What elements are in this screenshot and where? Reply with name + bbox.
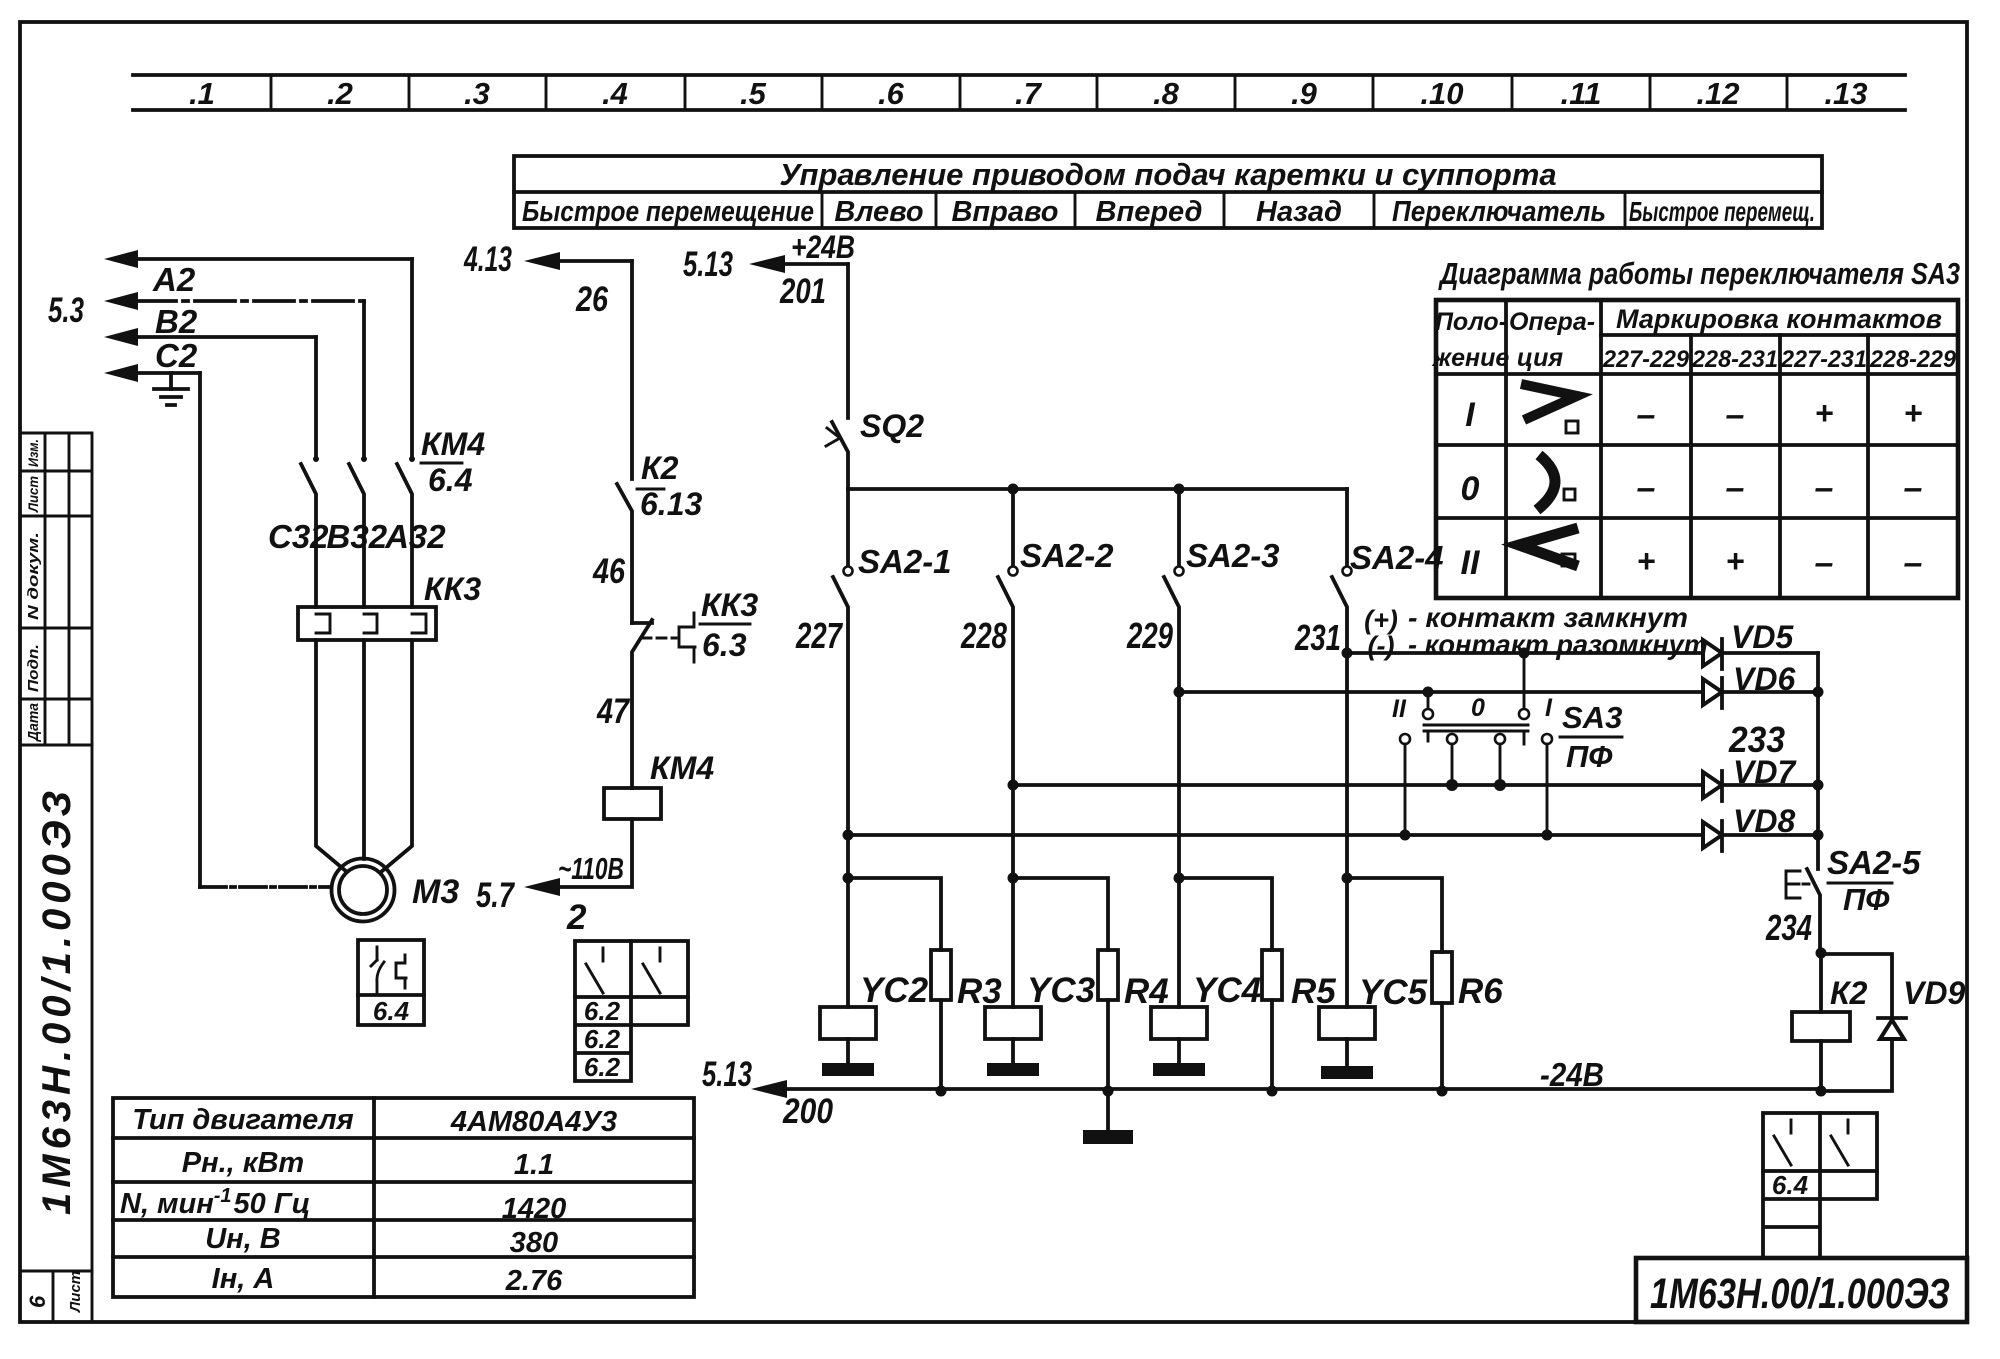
cross-reference table K2 bottom right [1763,1113,1877,1258]
svg-text:Управление приводом подач каре: Управление приводом подач каретки и супп… [779,157,1556,192]
svg-text:К2: К2 [641,450,679,486]
relay coil K2 [1792,948,1868,1092]
svg-text:R6: R6 [1458,972,1503,1011]
svg-text:КМ4: КМ4 [650,750,714,786]
svg-text:А2: А2 [152,261,196,298]
node 5.3 feeder label [48,291,84,330]
svg-text:–: – [1904,544,1923,582]
svg-text:+: + [1637,543,1656,579]
svg-text:ПФ: ПФ [1566,739,1613,774]
svg-text:4.13: 4.13 [463,240,512,279]
svg-text:.7: .7 [1015,76,1043,111]
contactor coil KM4 [604,750,714,819]
svg-text:С32В32А32: С32В32А32 [268,518,446,555]
svg-text:5.7: 5.7 [476,876,515,915]
svg-text:228-231: 228-231 [1691,346,1778,373]
diode VD6 [1703,661,1818,708]
wire labels С32 В32 А32 [268,518,446,555]
-24В bus wire 200 [702,1055,1827,1131]
thermal relay KK3 heaters [298,607,436,640]
SA3 table data row 0: - - - - [1637,469,1923,507]
svg-text:Дama: Дama [25,703,42,743]
svg-text:227: 227 [795,615,843,656]
svg-text:5.13: 5.13 [683,245,733,284]
svg-text:II: II [1392,695,1407,723]
clutch YC3 [985,785,1096,1076]
diode VD9 [1821,954,1965,1091]
clutch YC2 [820,835,929,1076]
svg-text:VD9: VD9 [1903,975,1965,1011]
svg-text:Лucm: Лucm [67,1271,84,1313]
svg-text:5.3: 5.3 [48,291,84,330]
svg-text:–: – [1815,544,1834,582]
title block box 1М63Н.00/1.000ЭЗ [1636,1258,1967,1322]
svg-text:В2: В2 [155,303,198,340]
svg-text:.1: .1 [189,76,215,111]
label KK3 6.3 [700,587,758,663]
svg-text:+24В: +24В [791,229,855,265]
svg-text:КМ4: КМ4 [421,426,485,462]
switch SA2-2 [960,489,1114,785]
svg-text:6.4: 6.4 [373,996,410,1026]
wire 201 vertical [846,264,850,418]
svg-text:+: + [1904,395,1923,431]
svg-text:+: + [1815,395,1834,431]
SA3 table data row II: + + - - [1637,543,1923,582]
resistor R6 [1347,878,1503,1091]
svg-text:Вправо: Вправо [951,196,1058,228]
svg-text:–: – [1637,469,1656,507]
contactor contact KM4 pole 3 [397,456,415,607]
svg-text:Uн, В: Uн, В [205,1223,281,1255]
diode VD7 [1703,754,1818,801]
wire motor leads [316,640,412,872]
svg-text:.10: .10 [1420,76,1463,111]
svg-text:–: – [1726,469,1745,507]
svg-text:1420: 1420 [502,1193,567,1225]
svg-text:.3: .3 [464,76,490,111]
SA3 table data row I: - - + + [1637,395,1923,434]
diode VD5 [1703,619,1818,669]
label KK3 [424,571,481,607]
svg-text:.9: .9 [1291,76,1318,111]
svg-text:SА2-2: SА2-2 [1020,537,1114,574]
svg-text:47: 47 [596,692,630,731]
node 4.13 / 26 arrow [463,240,632,319]
wire 229 to VD6 [1174,687,1704,698]
svg-text:КК3: КК3 [424,571,481,607]
svg-text:Iн, А: Iн, А [212,1263,275,1295]
svg-text:1М63Н.00/1.000ЭЗ: 1М63Н.00/1.000ЭЗ [1650,1270,1950,1318]
svg-text:.8: .8 [1153,76,1180,111]
side stamp sheet number cells (6 / Лист) [25,1271,92,1322]
svg-text:6.4: 6.4 [1772,1170,1809,1200]
svg-text:228: 228 [960,615,1007,656]
svg-text:-24В: -24В [1540,1056,1604,1093]
wire ground return to motor [200,373,331,887]
ground symbol [154,373,188,405]
svg-text:227-231: 227-231 [1780,346,1867,373]
svg-text:- контакт разомкнут: - контакт разомкнут [1408,629,1708,660]
wire 47 label [596,692,630,731]
svg-text:SА2-1: SА2-1 [858,543,952,580]
wire 46 label [592,552,625,591]
column ruler band .1 - .13 [133,75,1905,111]
svg-text:+: + [1726,543,1745,579]
switch SA2-3 [1126,489,1279,692]
svg-text:6.2: 6.2 [584,1052,621,1082]
arrow phase A top wire [104,250,412,268]
switch SA3 position contacts [1392,648,1553,745]
SA3 operation symbol row 0 [1537,455,1575,510]
svg-text:26: 26 [575,280,608,319]
svg-text:М3: М3 [412,873,459,911]
svg-text:–: – [1637,396,1656,434]
switch SA2-5 with manual drive [1765,844,1921,953]
svg-text:Маркировка контактов: Маркировка контактов [1616,304,1942,334]
svg-text:.6: .6 [878,76,905,111]
svg-text:YС3: YС3 [1027,971,1096,1010]
svg-text:Рн., кВт: Рн., кВт [182,1147,304,1179]
bus wire to SA2 switches [848,484,1347,495]
wire SA3 right pole to net 227 [1542,744,1553,841]
svg-text:6.13: 6.13 [640,486,702,522]
svg-text:0: 0 [1461,470,1480,508]
limit switch SQ2 [826,408,924,489]
node A2 [104,261,364,310]
switch SA2-4 [1294,489,1443,658]
SA3 operation symbol row I [1521,384,1578,433]
thermal trip contact KK3 [632,613,695,788]
title Диаграмма работы переключателя SA3 [1438,256,1960,291]
svg-text:Быстрое перемещ.: Быстрое перемещ. [1629,196,1815,227]
svg-text:.13: .13 [1824,76,1867,111]
svg-text:–: – [1815,469,1834,507]
svg-text:жение: жение [1431,344,1510,372]
svg-text:6: 6 [25,1295,50,1308]
svg-text:1.1: 1.1 [514,1149,554,1181]
wire SA3 mid poles to net 228 [1446,744,1506,791]
svg-text:~110В: ~110В [558,851,624,886]
svg-text:I: I [1465,396,1476,434]
svg-text:N докум.: N докум. [25,532,42,620]
svg-text:YС4: YС4 [1193,971,1261,1010]
chassis bar below bus [1083,1091,1133,1144]
svg-text:.2: .2 [327,76,353,111]
cross-reference table K2 6.2 [575,941,688,1082]
wire phase A vertical [410,259,414,458]
svg-text:Диаграмма работы переключателя: Диаграмма работы переключателя SА3 [1438,256,1960,291]
net 233 vertical bus [1728,653,1823,869]
svg-text:С2: С2 [155,337,198,374]
wire 26 vertical [630,261,634,479]
svg-text:КК3: КК3 [701,587,758,623]
node 5.7 / ~110В / 2 [476,851,624,937]
svg-text:6.3: 6.3 [702,627,747,663]
SA3 switch state table [1431,300,1958,598]
svg-text:Опера-: Опера- [1509,308,1595,336]
svg-text:6.2: 6.2 [584,996,621,1026]
svg-text:.4: .4 [602,76,628,111]
svg-text:II: II [1461,544,1481,582]
svg-text:0: 0 [1471,694,1485,722]
svg-text:SQ2: SQ2 [860,408,924,444]
svg-text:VD5: VD5 [1731,619,1794,655]
wire 228 to VD7 [1008,780,1704,791]
svg-text:Тип двигателя: Тип двигателя [132,1104,353,1136]
svg-text:.11: .11 [1561,76,1602,111]
svg-text:–: – [1726,396,1745,434]
label SA3 ПФ [1560,700,1622,774]
diode VD8 [1703,803,1818,851]
svg-text:SА2-4: SА2-4 [1350,539,1444,576]
side stamp table (Изм/Лист/N докум/Подп/Дата) [20,433,92,745]
svg-text:380: 380 [510,1227,558,1259]
svg-text:1М63Н.00/1.000ЭЗ: 1М63Н.00/1.000ЭЗ [35,786,79,1215]
node C2 [104,337,200,382]
svg-text:Подn.: Подn. [25,644,42,692]
side stamp document number box (rotated 1М63Н.00/1.000ЭЗ) [20,745,92,1271]
resistor R3 [848,878,1002,1091]
svg-text:5.13: 5.13 [702,1055,752,1094]
svg-text:Изм.: Изм. [25,439,41,467]
svg-text:201: 201 [779,272,826,311]
svg-text:I: I [1545,694,1553,722]
svg-text:.5: .5 [740,76,767,111]
function header table Управление приводом подач каретки и суппорта [514,156,1822,228]
svg-text:229: 229 [1126,615,1173,656]
svg-text:231: 231 [1294,617,1341,658]
motor data table [113,1098,694,1297]
svg-text:Вперед: Вперед [1096,196,1203,228]
contactor contact KM4 pole 1 [301,456,319,607]
clutch YC4 [1151,692,1261,1076]
svg-text:233: 233 [1728,719,1785,760]
contactor contact KM4 pole 2 [349,456,367,607]
wire 227 to VD8 [843,830,1704,841]
svg-text:2.76: 2.76 [505,1265,563,1297]
svg-text:(-): (-) [1368,631,1395,661]
svg-text:.12: .12 [1696,76,1739,111]
wire 231 to VD5 [1342,648,1704,659]
svg-text:227-229: 227-229 [1602,346,1690,373]
SA3 operation symbol row II [1519,528,1578,566]
svg-text:6.2: 6.2 [584,1024,621,1054]
svg-text:SА3: SА3 [1562,700,1622,735]
wire phase C vertical [314,337,318,458]
svg-text:4АМ80А4У3: 4АМ80А4У3 [450,1106,617,1138]
svg-text:Лиcm: Лиcm [25,476,41,513]
wire coil to 5.7 arrow [558,819,632,887]
svg-text:SА2-5: SА2-5 [1827,844,1921,881]
node 5.13 / +24В / 201 [683,229,855,311]
svg-text:К2: К2 [1830,975,1868,1011]
motor M3 [332,859,460,922]
clutch YC5 [1319,653,1428,1079]
cross-reference box KM4 6.4 [358,940,424,1026]
svg-text:Влево: Влево [834,196,923,228]
svg-text:ПФ: ПФ [1843,882,1890,917]
svg-text:234: 234 [1765,907,1812,948]
svg-text:Поло-: Поло- [1435,308,1507,336]
svg-text:ция: ция [1517,344,1563,372]
legend контакт замкнут / разомкнут [1364,602,1708,661]
resistor R4 [1013,878,1169,1091]
svg-text:2: 2 [566,898,587,937]
svg-text:Назад: Назад [1256,196,1342,228]
svg-text:Быстрое перемещение: Быстрое перемещение [522,196,814,228]
relay contact K2 [617,450,702,623]
svg-text:228-229: 228-229 [1869,346,1957,373]
svg-text:SА2-3: SА2-3 [1186,537,1280,574]
svg-text:–: – [1904,469,1923,507]
svg-text:YС2: YС2 [860,971,929,1010]
svg-text:46: 46 [592,552,625,591]
label KM4 6.4 [421,426,485,498]
resistor R5 [1179,878,1336,1091]
svg-text:Переключатель: Переключатель [1392,196,1606,228]
switch SA2-1 [795,489,951,835]
node B2 [104,303,316,346]
wire phase B vertical [362,301,366,458]
wire SA3 left pole to net 227 [1400,744,1411,841]
svg-text:200: 200 [782,1092,833,1131]
svg-text:6.4: 6.4 [428,462,473,498]
